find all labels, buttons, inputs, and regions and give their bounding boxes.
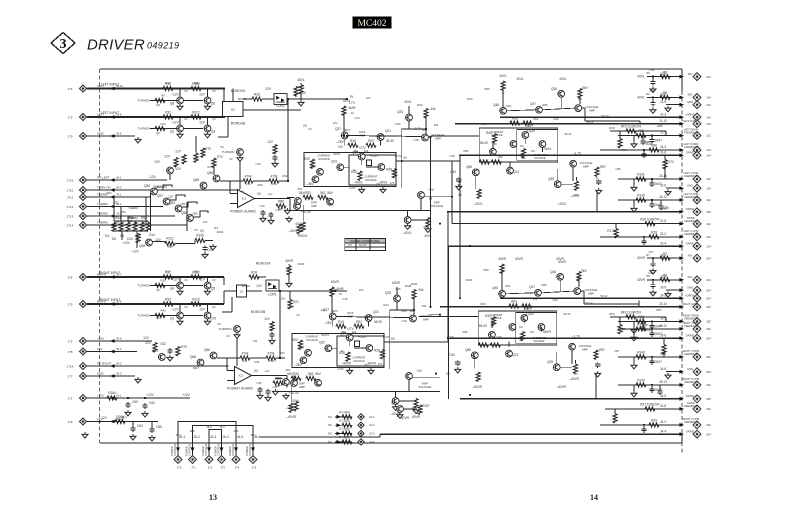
svg-text:J74: J74: [235, 466, 240, 470]
wire: [647, 279, 681, 281]
resistor R152: [342, 431, 352, 435]
wire: [146, 224, 187, 226]
svg-text:3: 3: [60, 37, 67, 52]
svg-text:56.1V: 56.1V: [585, 301, 592, 305]
svg-text:R59: R59: [484, 268, 489, 272]
wire: [354, 347, 366, 349]
svg-text:J6-7: J6-7: [175, 433, 181, 437]
svg-text:MONOGA: MONOGA: [256, 262, 271, 266]
svg-text:FEEDBACK: FEEDBACK: [684, 146, 698, 149]
wire bottom bank bracket 3: [209, 430, 222, 444]
arrowhead: [176, 447, 180, 452]
svg-text:12V: 12V: [154, 160, 161, 164]
svg-text:J6-2: J6-2: [193, 435, 199, 439]
transistor Q77: [397, 406, 404, 413]
ground: [413, 408, 419, 414]
svg-text:Q13: Q13: [513, 170, 519, 174]
svg-text:ICT: ICT: [348, 244, 352, 247]
wire: [663, 338, 665, 344]
svg-text:R22: R22: [368, 139, 374, 143]
svg-text:‒0.6V: ‒0.6V: [348, 186, 355, 190]
svg-text:J4-4: J4-4: [660, 429, 666, 433]
svg-text:12V: 12V: [265, 87, 272, 91]
svg-text:C87: C87: [615, 349, 620, 353]
transistor Q9A: [312, 176, 319, 183]
svg-text:J3-10: J3-10: [659, 302, 667, 306]
resistor R8A: [273, 145, 277, 155]
wire: [560, 366, 572, 368]
wire: [275, 377, 283, 379]
resistor R21: [288, 300, 292, 310]
svg-text:Q1: Q1: [170, 317, 174, 321]
wire: [279, 375, 287, 377]
arrowhead: [679, 278, 684, 282]
wire: [659, 385, 661, 389]
svg-text:DRIVE: DRIVE: [686, 394, 694, 398]
resistor R30B: [287, 266, 291, 276]
resistor R171: [618, 139, 622, 149]
wire: [633, 357, 635, 363]
svg-text:R18: R18: [251, 271, 257, 275]
resistor R5: [660, 75, 670, 79]
ground: [135, 137, 141, 143]
ground: [631, 327, 637, 333]
resistor R99B: [476, 372, 480, 382]
arrowhead: [110, 115, 115, 119]
svg-text:Q6: Q6: [211, 102, 215, 106]
junction: [401, 160, 403, 162]
svg-text:PL: PL: [350, 95, 354, 99]
wire: [232, 89, 234, 102]
svg-text:‒12V: ‒12V: [171, 308, 179, 312]
connector J4-2: [693, 421, 701, 429]
arrowhead: [679, 186, 684, 190]
svg-text:‒36V: ‒36V: [306, 182, 314, 186]
resistor R98B: [490, 343, 500, 347]
svg-text:40VR: 40VR: [637, 256, 646, 260]
wire: [150, 128, 203, 130]
svg-text:56V: 56V: [286, 368, 291, 372]
svg-text:THERM: THERM: [128, 216, 138, 220]
wire turn-on bus: [150, 189, 240, 191]
arrowhead: [679, 153, 684, 157]
capacitor: [641, 239, 646, 245]
wire: [407, 210, 409, 216]
svg-text:0V: 0V: [212, 117, 215, 121]
junction: [651, 199, 653, 201]
svg-text:J22: J22: [706, 423, 711, 427]
wire: [295, 94, 297, 98]
arrowhead: [679, 256, 684, 260]
junction: [429, 306, 431, 308]
wire voltage amp out: [585, 120, 640, 122]
resistor R188: [191, 86, 201, 90]
transistor Q43A: [575, 105, 582, 112]
junction: [651, 384, 653, 386]
transistor Q22A: [337, 164, 344, 171]
svg-text:R92: R92: [283, 174, 288, 178]
svg-text:475k: 475k: [271, 175, 278, 179]
wire: [619, 131, 621, 139]
svg-text:J6-12: J6-12: [659, 195, 667, 199]
transistor Q21A: [377, 134, 384, 141]
capacitor: [649, 138, 654, 144]
svg-text:Q8: Q8: [170, 102, 174, 106]
resistor R87: [636, 319, 646, 323]
capacitor: [649, 359, 654, 365]
ground: [650, 87, 656, 93]
svg-text:47k: 47k: [246, 182, 251, 186]
resistor R92A: [269, 179, 279, 183]
ground: [205, 319, 211, 325]
resistor R22A: [366, 143, 376, 147]
svg-text:‒28V: ‒28V: [324, 321, 332, 325]
svg-text:J6-13: J6-13: [659, 380, 667, 384]
svg-text:R23: R23: [396, 122, 401, 126]
svg-text:C64: C64: [137, 424, 143, 428]
resistor R58B: [573, 364, 577, 374]
wire: [600, 149, 681, 151]
wire: [179, 117, 181, 125]
resistor R59: [133, 222, 137, 232]
table power content: [345, 239, 386, 251]
junction: [651, 328, 653, 330]
resistor R33: [163, 302, 173, 306]
svg-text:12V: 12V: [97, 347, 102, 351]
svg-text:681: 681: [520, 336, 525, 340]
transistor Q65A: [472, 169, 479, 176]
capacitor: [641, 152, 646, 158]
svg-text:Q47: Q47: [530, 102, 536, 106]
svg-text:AMP: AMP: [435, 137, 441, 141]
svg-text:681: 681: [521, 156, 526, 160]
wire voltage amp out: [584, 303, 639, 305]
transistor Q37B: [406, 373, 413, 380]
svg-text:GND: GND: [687, 367, 693, 371]
ground: [397, 412, 403, 418]
svg-text:681: 681: [354, 149, 359, 153]
svg-text:GND: GND: [97, 371, 105, 375]
wire: [175, 243, 195, 245]
ground: [283, 393, 289, 399]
svg-text:TURNON: TURNON: [219, 327, 232, 331]
resistor R7: [660, 256, 670, 260]
svg-text:.0047: .0047: [654, 360, 662, 364]
svg-text:‒12V: ‒12V: [148, 175, 156, 179]
wire: [581, 290, 584, 292]
wire: [642, 317, 644, 325]
current source inner block right A: [517, 130, 558, 161]
resistor R86: [649, 148, 659, 152]
svg-text:R41: R41: [486, 131, 492, 135]
current source block right A: [479, 128, 558, 162]
wire: [618, 178, 681, 180]
junction: [159, 276, 161, 278]
svg-text:C34: C34: [450, 170, 456, 174]
wire bus: [150, 193, 152, 231]
wire bank top bus: [114, 220, 148, 222]
svg-text:55.4V: 55.4V: [564, 132, 571, 136]
connector J4-8: [693, 405, 701, 413]
svg-text:+2V: +2V: [428, 188, 435, 192]
transistor Q46B: [499, 290, 506, 297]
wire: [262, 98, 274, 100]
svg-text:THERM: THERM: [97, 202, 108, 206]
transistor Q27B: [329, 313, 336, 320]
svg-text:40VR: 40VR: [515, 257, 524, 261]
wire: [207, 277, 209, 282]
svg-text:R20: R20: [292, 338, 298, 342]
wire va column drop B: [595, 374, 597, 399]
capacitor C62: [142, 403, 147, 409]
wire 0V interconnect: [451, 161, 453, 224]
resistor R9: [155, 98, 165, 102]
arrowhead: [336, 415, 341, 419]
svg-text:MC402: MC402: [357, 19, 386, 29]
connector J710: [79, 186, 86, 193]
svg-text:Q27: Q27: [335, 127, 341, 131]
svg-text:R73: R73: [194, 157, 199, 161]
junction: [451, 196, 453, 198]
svg-text:Q22: Q22: [331, 160, 337, 164]
junction: [206, 276, 208, 278]
arrowhead: [679, 122, 684, 126]
resistor R57: [119, 222, 123, 232]
resistor R88B: [273, 381, 283, 385]
wire: [205, 240, 213, 242]
wire: [651, 136, 653, 138]
ground: [665, 189, 671, 195]
current source inner block right B: [516, 313, 557, 344]
svg-text:40VR: 40VR: [556, 257, 565, 261]
ground: [269, 338, 275, 344]
svg-text:Q47: Q47: [529, 285, 535, 289]
wire: [87, 340, 152, 342]
svg-text:12V: 12V: [164, 155, 171, 159]
wire: [618, 384, 681, 386]
svg-text:R29: R29: [651, 419, 657, 423]
svg-text:40VL: 40VL: [333, 152, 341, 156]
svg-text:475k: 475k: [268, 359, 274, 363]
svg-text:40k: 40k: [430, 107, 436, 111]
wire: [175, 165, 177, 167]
svg-text:R91: R91: [255, 360, 260, 364]
resistor R71: [201, 148, 205, 158]
wire: [87, 116, 224, 118]
svg-text:Q4: Q4: [170, 287, 174, 291]
svg-text:R85: R85: [658, 124, 663, 128]
svg-text:TURN ON: TURN ON: [97, 185, 111, 189]
svg-text:LDR1: LDR1: [276, 104, 284, 108]
svg-text:2k21: 2k21: [423, 225, 429, 229]
transistor Q34RA: [510, 141, 517, 148]
wire: [508, 342, 510, 347]
wire: [633, 385, 635, 391]
svg-text:36.3V: 36.3V: [386, 139, 395, 143]
transistor Q36A: [404, 217, 411, 224]
op-amp IC1A power guard: [238, 190, 255, 208]
transistor Q13B: [506, 350, 513, 357]
svg-text:Q22: Q22: [319, 341, 325, 345]
svg-text:‒40VL: ‒40VL: [557, 202, 566, 206]
arrowhead: [110, 339, 115, 343]
svg-text:12V: 12V: [359, 288, 364, 292]
capacitor C44A: [260, 210, 265, 216]
svg-text:12V: 12V: [366, 96, 371, 100]
svg-text:MONOGB: MONOGB: [251, 310, 266, 314]
svg-text:J6-5: J6-5: [237, 435, 243, 439]
resistor R64B: [522, 304, 532, 308]
wire: [349, 341, 351, 346]
wire: [224, 290, 237, 292]
svg-text:C30: C30: [450, 154, 455, 158]
wire connector drop: [252, 443, 254, 455]
junction: [206, 87, 208, 89]
svg-text:12V: 12V: [175, 150, 182, 154]
svg-text:J2-2: J2-2: [369, 423, 375, 427]
resistor R48B: [521, 332, 525, 342]
resistor R19: [294, 87, 298, 97]
svg-text:J5-1: J5-1: [116, 393, 122, 397]
svg-text:R65: R65: [543, 103, 548, 107]
junction: [652, 96, 654, 98]
svg-text:J14: J14: [706, 186, 711, 190]
ground: [650, 268, 656, 274]
svg-text:C45: C45: [257, 381, 262, 385]
svg-text:40VL: 40VL: [637, 95, 645, 99]
resistor R171: [618, 324, 622, 334]
wire: [651, 329, 653, 331]
wire: [647, 96, 681, 98]
svg-text:0V: 0V: [212, 305, 215, 309]
svg-text:Q7b: Q7b: [210, 317, 216, 321]
svg-text:55.4V: 55.4V: [479, 324, 488, 328]
wire: [87, 135, 135, 137]
transistor Q39A: [327, 198, 334, 205]
svg-text:681: 681: [329, 202, 334, 206]
svg-text:S1: S1: [240, 290, 244, 294]
wire: [150, 285, 203, 287]
svg-text:R121: R121: [192, 111, 200, 115]
wire: [664, 155, 666, 159]
svg-text:J75: J75: [68, 303, 73, 307]
svg-text:J12: J12: [706, 177, 711, 181]
svg-text:56V: 56V: [582, 86, 589, 90]
resistor R29: [649, 423, 659, 427]
junction: [346, 98, 348, 100]
current source inner block B: [337, 336, 384, 366]
ground: [82, 432, 88, 438]
svg-text:+2V: +2V: [337, 145, 344, 149]
svg-text:R88: R88: [278, 200, 284, 204]
wire: [615, 224, 617, 229]
wire: [247, 290, 263, 292]
transistor Q25A: [406, 114, 413, 121]
resistor R153: [342, 440, 352, 444]
wire: [243, 109, 301, 111]
connector J6-11: [693, 325, 701, 333]
svg-text:562: 562: [308, 372, 314, 376]
wire: [614, 409, 616, 414]
resistor R62A: [578, 89, 582, 99]
wire drive bus: [500, 116, 681, 118]
svg-text:4k: 4k: [502, 91, 505, 95]
svg-text:0V: 0V: [226, 334, 229, 338]
svg-text:Q25: Q25: [395, 287, 401, 291]
wire: [447, 338, 449, 342]
resistor R45B: [306, 376, 316, 380]
ground: [272, 389, 278, 395]
transistor Q69A: [294, 203, 301, 210]
resistor R182: [191, 275, 201, 279]
resistor R31A: [342, 106, 346, 116]
resistor R139: [636, 198, 646, 202]
connector J4-4: [693, 430, 701, 438]
wire: [335, 424, 352, 426]
arrowhead: [679, 177, 684, 181]
wire: [647, 257, 681, 259]
resistor R64A: [523, 121, 533, 125]
wire: [652, 280, 654, 283]
ground: [631, 363, 637, 369]
wire: [509, 162, 511, 167]
connector J1-9: [693, 101, 701, 109]
svg-text:J714: J714: [67, 224, 74, 228]
connector J4-6: [693, 368, 701, 376]
ground: [368, 368, 374, 374]
transistor Q33RA: [490, 148, 497, 155]
resistor R151: [342, 423, 352, 427]
svg-text:0V: 0V: [184, 305, 187, 309]
wire: [223, 89, 225, 102]
wire LDR feedback drop: [287, 99, 289, 181]
resistor R28B: [380, 350, 384, 360]
svg-text:R139: R139: [637, 194, 645, 198]
wire: [642, 131, 644, 139]
connector J1-2: [693, 93, 701, 101]
ground: [135, 377, 141, 383]
svg-text:AMP: AMP: [299, 385, 305, 389]
wire: [582, 107, 585, 109]
transistor Q66A: [213, 175, 220, 182]
svg-text:‒40VL: ‒40VL: [353, 181, 362, 185]
svg-text:47k: 47k: [243, 359, 248, 363]
wire bottom border: [100, 442, 682, 444]
junction: [651, 134, 653, 136]
wire: [368, 321, 370, 326]
wire: [164, 242, 166, 244]
svg-text:R79: R79: [181, 345, 187, 349]
svg-text:R59: R59: [485, 87, 490, 91]
svg-text:J2-2: J2-2: [660, 232, 666, 236]
svg-text:C11: C11: [253, 339, 258, 343]
svg-text:‒36V: ‒36V: [294, 363, 302, 367]
transistor Q9B: [300, 357, 307, 364]
junction: [413, 309, 415, 311]
ground: [347, 368, 353, 374]
wire: [87, 276, 224, 278]
svg-text:0V: 0V: [403, 156, 408, 160]
svg-text:J14: J14: [706, 75, 711, 79]
svg-text:CURRENT: CURRENT: [352, 356, 365, 360]
connector J2-8: [693, 220, 701, 228]
transistor Q30RA: [522, 132, 529, 139]
svg-text:R40: R40: [161, 309, 166, 313]
resistor R94B: [294, 402, 298, 412]
svg-text:C86: C86: [663, 206, 669, 210]
svg-text:R143: R143: [637, 351, 645, 355]
connector J3-10: [693, 303, 701, 311]
